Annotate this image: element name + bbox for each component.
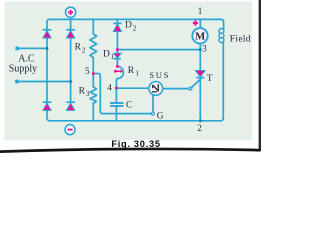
wire center branch above R2 xyxy=(92,19,94,34)
junction dot node 5 xyxy=(92,72,95,75)
AC terminal dots xyxy=(15,46,19,50)
scan panel background xyxy=(5,2,253,141)
right page border bar xyxy=(259,0,261,151)
diode bridge D-LL xyxy=(43,102,52,110)
wire node3 horizontal xyxy=(117,49,200,51)
junction dot D branch node 3 wire xyxy=(116,48,119,51)
SUS device xyxy=(149,82,163,96)
wire AC supply bottom lead xyxy=(17,81,71,83)
resistor R2 zigzag xyxy=(90,34,97,58)
svg-text:T: T xyxy=(207,74,213,84)
svg-text:1: 1 xyxy=(111,53,115,61)
thyristor T xyxy=(195,70,205,77)
svg-text:M: M xyxy=(195,32,205,43)
wire top rail xyxy=(47,19,224,31)
wire bottom rail xyxy=(47,43,223,121)
wire SUS cathode to G terminal xyxy=(152,95,154,112)
svg-text:R: R xyxy=(128,66,135,76)
wire node4 to SUS xyxy=(116,87,147,89)
wire AC supply top lead xyxy=(17,47,47,49)
wire R2 to node5 to R3 xyxy=(92,58,94,87)
svg-text:1: 1 xyxy=(198,6,203,16)
resistor R3 zigzag xyxy=(90,87,96,103)
wire SUS to thyristor gate terminal xyxy=(164,88,189,90)
svg-text:SUS: SUS xyxy=(149,70,170,80)
wire gate diagonal xyxy=(192,79,201,87)
diode D1 xyxy=(113,53,121,59)
field coil loops xyxy=(219,29,224,43)
wire capacitor to bottom rail xyxy=(115,107,117,121)
wire bridge right branch xyxy=(70,19,72,103)
wire thyristor to bottom rail xyxy=(199,77,201,120)
svg-text:5: 5 xyxy=(85,66,90,76)
svg-text:Field: Field xyxy=(230,35,251,45)
svg-text:Supply: Supply xyxy=(9,64,37,75)
svg-text:3: 3 xyxy=(202,44,207,54)
diode bridge D-LR xyxy=(66,102,75,110)
bottom rule line xyxy=(0,149,261,152)
motor M xyxy=(192,28,207,43)
svg-text:4: 4 xyxy=(107,83,112,93)
wire node5 to gate G xyxy=(93,74,151,114)
diode D2 xyxy=(113,23,121,31)
junction dot node 4 xyxy=(115,87,118,90)
minus terminal circle xyxy=(65,125,75,135)
svg-text:2: 2 xyxy=(133,24,137,32)
svg-text:1: 1 xyxy=(136,70,140,78)
plus terminal circle xyxy=(66,7,76,17)
svg-text:D: D xyxy=(103,50,110,60)
svg-text:C: C xyxy=(126,99,132,109)
rheostat R1 wiper arrow xyxy=(114,70,123,73)
wire bridge left branch xyxy=(46,31,48,103)
svg-text:Fig. 30.35: Fig. 30.35 xyxy=(111,139,160,149)
rheostat R1 arc xyxy=(116,66,123,88)
thyristor gate terminal circle xyxy=(189,87,192,90)
svg-text:R: R xyxy=(75,42,82,52)
wire R3 to bottom rail xyxy=(92,103,94,121)
svg-text:R: R xyxy=(79,86,86,96)
junction dots blue xyxy=(46,47,49,50)
diode bridge D-UR xyxy=(66,30,75,38)
wire motor to thyristor xyxy=(199,44,201,71)
capacitor C plates xyxy=(110,103,124,106)
svg-text:D: D xyxy=(125,21,132,31)
svg-text:3: 3 xyxy=(86,90,90,98)
wire motor branch upper xyxy=(199,19,201,28)
svg-text:G: G xyxy=(157,112,164,122)
junction dot rheostat top xyxy=(116,65,119,68)
wire D branch from rail through D2 D1 xyxy=(116,19,118,66)
wire node4 to capacitor xyxy=(115,88,117,102)
gate terminal G circle xyxy=(151,112,154,115)
diode bridge D-UL xyxy=(43,30,52,38)
plus sign at motor xyxy=(193,20,198,25)
svg-text:2: 2 xyxy=(82,46,86,54)
svg-text:2: 2 xyxy=(197,123,202,133)
